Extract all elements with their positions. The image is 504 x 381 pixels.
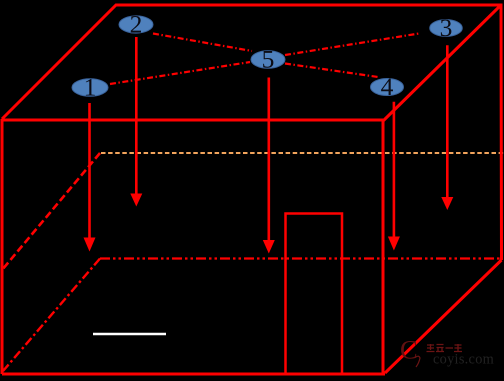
svg-text:1: 1 (84, 73, 97, 102)
svg-text:coyis.com: coyis.com (433, 352, 494, 368)
svg-text:3: 3 (440, 13, 453, 42)
svg-text:4: 4 (381, 72, 394, 101)
svg-text:C: C (400, 335, 418, 365)
svg-text:5: 5 (262, 45, 275, 74)
svg-text:2: 2 (130, 10, 143, 39)
